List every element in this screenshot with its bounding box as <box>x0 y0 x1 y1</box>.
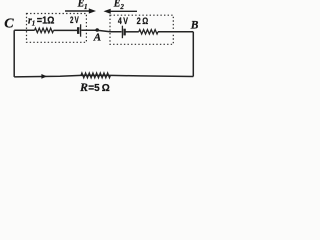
svg-text:R: R <box>79 80 88 94</box>
wire C corner to resistor r1 <box>14 29 34 31</box>
label R = 5 ohm <box>79 80 110 94</box>
label 4 V <box>118 16 128 27</box>
svg-text:1: 1 <box>84 3 88 11</box>
svg-text:=1Ω: =1Ω <box>37 16 55 27</box>
emf E2 label <box>113 0 125 11</box>
wire cell E2 to resistor 2 ohm <box>125 31 139 33</box>
current direction arrow on bottom wire <box>41 74 47 79</box>
svg-text:B: B <box>190 20 199 32</box>
wire bottom right segment <box>110 75 193 76</box>
cell E2 battery symbol (long thin positive plate, short thick negative plate) <box>122 26 124 39</box>
wire left vertical C to bottom <box>13 30 15 77</box>
wire cell E1 to node A <box>81 29 97 31</box>
cell E1 dashed enclosure <box>27 14 87 43</box>
wire bottom left segment <box>14 75 110 77</box>
svg-text:1: 1 <box>32 20 36 28</box>
resistor r1 zigzag <box>35 28 54 32</box>
wire resistor r1 to cell E1 <box>54 29 78 31</box>
wire right vertical B to bottom <box>192 32 194 77</box>
svg-text:4 V: 4 V <box>118 16 128 27</box>
svg-text:C: C <box>4 17 14 32</box>
node A label <box>93 32 101 44</box>
cell E1 battery symbol (short thick negative plate, long thin positive plate) <box>78 24 80 36</box>
node C label <box>4 17 14 32</box>
cell E2 dashed enclosure <box>110 15 173 44</box>
svg-text:2: 2 <box>119 3 124 11</box>
node B label <box>190 20 199 32</box>
resistor 2 ohm zigzag <box>139 30 158 34</box>
label r1 = 1 ohm <box>28 16 54 28</box>
resistor R zigzag <box>81 73 110 78</box>
svg-text:2 Ω: 2 Ω <box>137 16 149 27</box>
svg-text:2 V: 2 V <box>70 15 79 25</box>
node A junction dot <box>95 28 99 32</box>
svg-text:=5 Ω: =5 Ω <box>88 83 109 94</box>
emf E1 direction arrow (points right) <box>65 8 96 13</box>
emf E2 direction arrow (points left) <box>104 9 138 14</box>
wire node A to cell E2 <box>97 30 121 32</box>
wire resistor 2 ohm to node B corner <box>158 31 193 33</box>
label 2 ohm <box>137 16 149 27</box>
emf E1 label <box>77 0 88 11</box>
svg-text:A: A <box>93 32 101 44</box>
label 2 V <box>70 15 79 25</box>
